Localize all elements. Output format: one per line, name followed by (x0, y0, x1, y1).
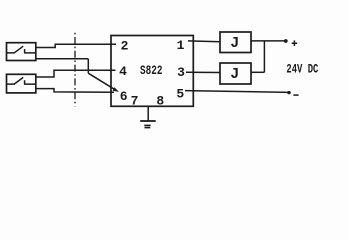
wire J1 output to plus rail (251, 40, 286, 42)
svg-text:1: 1 (177, 38, 185, 53)
svg-text:S822: S822 (140, 63, 163, 78)
ground symbol (140, 120, 156, 122)
svg-text:3: 3 (177, 65, 185, 80)
wire SQ2 lower stub to pin 6 (36, 89, 114, 93)
terminal dot plus (284, 39, 288, 43)
svg-text:5: 5 (176, 87, 184, 102)
switch SQ2 contact (7, 77, 36, 84)
wire junction vertical (87, 59, 89, 73)
wire J2 output (251, 71, 264, 73)
svg-text:4: 4 (119, 64, 127, 79)
svg-text:J: J (230, 66, 239, 83)
wire pin 3 to relay J2 (186, 71, 220, 73)
relay J1 box (220, 32, 251, 53)
wire SQ2 upper stub to pin 4 (36, 70, 116, 77)
wire pin 1 to relay J1 (188, 40, 220, 43)
arrowhead at pin 6 (113, 87, 119, 92)
wire junction vertical J2 to plus rail (263, 41, 265, 72)
switch SQ1 contact (7, 46, 36, 53)
switch SQ2 box (7, 74, 36, 93)
switch SQ1 box (7, 43, 36, 61)
wire SQ1 lower stub (36, 58, 89, 60)
svg-text:24V DC: 24V DC (286, 61, 318, 76)
wire SQ1 upper stub to pin 2 (36, 44, 116, 47)
svg-text:J: J (230, 35, 239, 52)
wire diagonal to pin 6 (88, 73, 116, 90)
terminal dot minus (287, 91, 290, 94)
svg-text:7: 7 (131, 94, 139, 109)
plus sign (292, 40, 298, 46)
wire pin 5 to minus terminal (185, 91, 289, 93)
dash-dot boundary line (74, 33, 76, 107)
svg-text:8: 8 (156, 93, 164, 108)
svg-text:2: 2 (121, 39, 129, 54)
ground wire from pins 7,8 (147, 106, 149, 121)
minus sign (293, 94, 298, 96)
IC U1 S822 box (111, 36, 193, 107)
svg-text:6: 6 (120, 89, 128, 104)
relay J2 box (220, 63, 251, 84)
